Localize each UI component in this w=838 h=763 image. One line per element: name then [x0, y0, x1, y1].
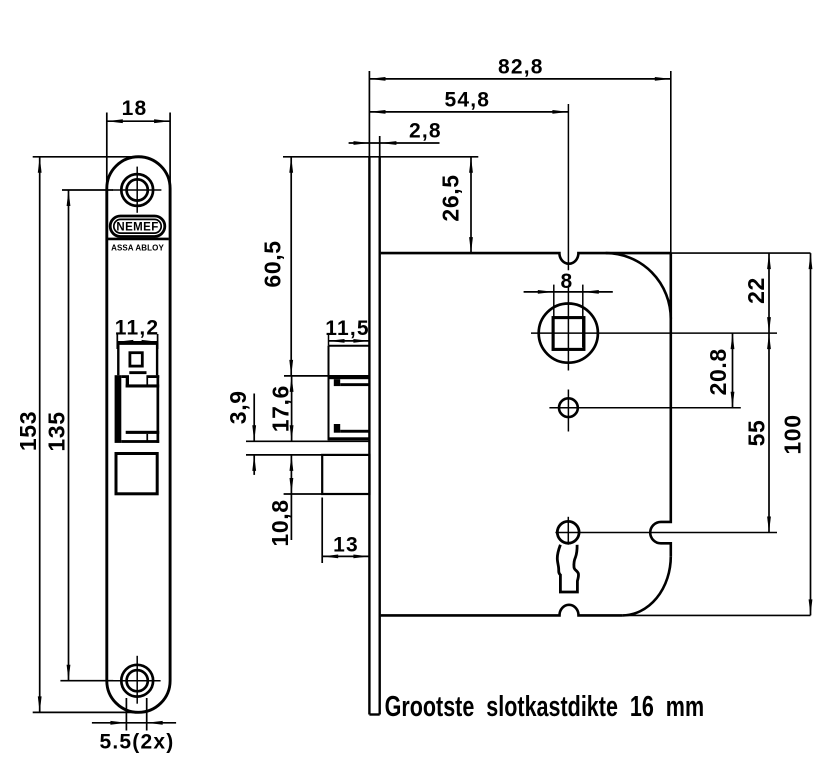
top-right corner arc [606, 253, 671, 319]
keyhole horizontal centerline [555, 532, 777, 534]
line under logo [107, 238, 168, 241]
svg-text:20.8: 20.8 [705, 348, 731, 395]
dimension 17,6 (latch height) [246, 376, 370, 441]
svg-text:NEMEF: NEMEF [116, 221, 158, 233]
spindle horizontal centerline [531, 332, 777, 334]
svg-text:ASSA ABLOY: ASSA ABLOY [111, 244, 164, 253]
faceplate (side view, two vertical lines) [369, 71, 379, 715]
svg-text:22: 22 [743, 277, 769, 304]
keyhole stem [557, 545, 578, 592]
svg-text:10,8: 10,8 [267, 499, 293, 546]
dimension 55 (axis to keyhole) [743, 333, 771, 532]
top screw hole [112, 167, 161, 213]
lock case outline [381, 253, 671, 615]
spindle hub circle [539, 304, 598, 363]
deadbolt thrown (side view) [322, 455, 369, 494]
dimension 11,5 (latch protrusion) [325, 317, 370, 343]
svg-text:11,5: 11,5 [325, 317, 370, 340]
dimension 135 (screw hole distance) [43, 190, 113, 681]
small circle hole [559, 398, 578, 417]
latch cutout upper section [118, 344, 157, 376]
dimension 13 (deadbolt throw) [322, 498, 369, 564]
dimension 26,5 (plate top to case top) [283, 157, 478, 253]
svg-text:100: 100 [780, 414, 806, 454]
svg-text:26,5: 26,5 [438, 174, 464, 221]
svg-text:5.5(2x): 5.5(2x) [100, 731, 175, 754]
keyhole circle [557, 521, 579, 543]
dimension 22 (case top to axis) [743, 253, 771, 333]
vertical centerline [567, 104, 569, 546]
svg-text:82,8: 82,8 [498, 56, 544, 79]
svg-text:18: 18 [122, 97, 148, 120]
svg-text:3,9: 3,9 [225, 390, 251, 424]
svg-text:2,8: 2,8 [409, 119, 442, 142]
svg-text:54,8: 54,8 [444, 88, 490, 111]
svg-text:Grootste slotkastdikte 16 m: Grootste slotkastdikte 16 mm [385, 691, 704, 723]
svg-text:55: 55 [743, 420, 769, 447]
dimension 2,8 (faceplate thickness) [349, 119, 442, 145]
latch bolt (left view) [115, 371, 160, 443]
spindle square hole [553, 318, 584, 350]
case edge extension lines [622, 71, 810, 615]
svg-text:17,6: 17,6 [268, 385, 294, 432]
small circle centerline [549, 407, 740, 409]
svg-text:8: 8 [561, 270, 574, 293]
deadbolt square hole (left view) [116, 454, 157, 494]
svg-text:135: 135 [43, 411, 69, 451]
dimension 54,8 (backset to axis) [370, 88, 569, 114]
svg-text:11,2: 11,2 [115, 317, 160, 340]
dimension 3,9 (latch to deadbolt gap) [225, 390, 256, 474]
adjuster square hole [130, 353, 142, 366]
svg-text:13: 13 [333, 534, 359, 557]
dimension 18 (plate width) [107, 97, 170, 189]
extension lines of 8 dim [554, 285, 583, 348]
dimension 11,2 (cutout width) [115, 317, 160, 350]
NEMEF logo [110, 216, 165, 237]
bottom screw hole [108, 656, 161, 704]
dimension 100 (case height) [780, 253, 813, 615]
svg-text:60,5: 60,5 [260, 240, 286, 287]
dimension 82,8 (case depth overall) [370, 56, 671, 81]
dimension 10,8 (deadbolt height) [246, 455, 322, 547]
svg-text:153: 153 [15, 411, 41, 451]
dimension 60,5 (plate top to latch top) [260, 157, 294, 376]
dimension 153 (plate height) [15, 157, 146, 713]
latch bolt protruding (side view) [329, 335, 370, 441]
faceplate outline (left view, stadium shape) [107, 157, 170, 713]
dimension 8 (spindle square) [524, 270, 613, 294]
dimension 5.5(2x) (screw hole dia) [92, 698, 176, 754]
dimension 20.8 (axis to small hole) [705, 333, 734, 408]
